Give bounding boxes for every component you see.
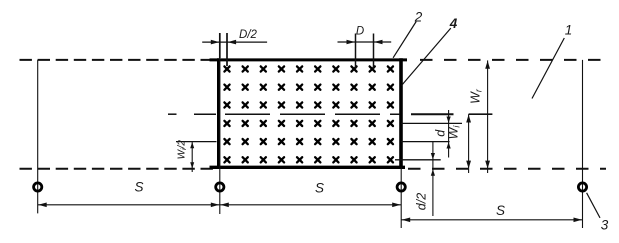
svg-text:D: D (356, 26, 364, 38)
callout 2 leader (393, 22, 416, 58)
extension line at circle 4 (582, 60, 584, 228)
depth line row5 (right) (401, 141, 450, 143)
W' extension stub below web edge (487, 169, 489, 173)
svg-text:d: d (433, 129, 447, 137)
extension line at circle 3 (400, 167, 402, 228)
web edge top dashed line (20, 59, 218, 61)
depth line row4 (right) (401, 122, 462, 124)
dimension S3 (401, 219, 582, 221)
centerline solid extension right (411, 113, 454, 115)
dimension W' (vertical) (487, 60, 489, 168)
svg-text:4: 4 (449, 16, 458, 31)
svg-text:D/2: D/2 (239, 29, 258, 41)
dashed centerline through region (168, 113, 177, 115)
dimension D (338, 41, 392, 43)
svg-text:3: 3 (601, 218, 609, 233)
extension line at circle 1 (37, 60, 39, 214)
extension line at circle 2 (219, 33, 221, 214)
dimension d (vertical) (448, 110, 450, 158)
svg-text:S: S (496, 203, 505, 218)
electrode circle 1 (34, 183, 42, 191)
x-mark grid inside treated region (224, 66, 393, 162)
callout 1 leader (532, 38, 564, 99)
dimension W_i/2 (left vertical) (191, 142, 193, 172)
callout 4 leader (402, 28, 451, 85)
dimension d/2 (vertical) (432, 142, 434, 216)
svg-text:Wr: Wr (469, 88, 484, 104)
electrode circle 3 (397, 183, 405, 191)
depth line row6 (right) (395, 159, 441, 161)
web edge bottom dashed line (20, 168, 218, 170)
dimension S1 (38, 204, 220, 206)
electrode circle 4 (578, 183, 586, 191)
dimension W_i (vertical) (468, 114, 470, 169)
svg-text:S: S (134, 180, 143, 195)
depth line row5 (left) (176, 141, 217, 143)
dimension D/2 (202, 41, 267, 43)
svg-text:Wi/2: Wi/2 (176, 140, 188, 160)
electrode circle 2 (216, 183, 224, 191)
W_i extension stub below web edge (468, 169, 470, 173)
connector line W_i top (469, 113, 493, 115)
dimension S2 (220, 204, 401, 206)
svg-text:2: 2 (414, 10, 423, 25)
svg-text:d/2: d/2 (415, 193, 429, 210)
svg-text:S: S (315, 181, 324, 196)
treated region rectangle (item 2) (210, 58, 408, 61)
callout 3 leader (587, 193, 600, 218)
svg-text:1: 1 (565, 23, 573, 38)
